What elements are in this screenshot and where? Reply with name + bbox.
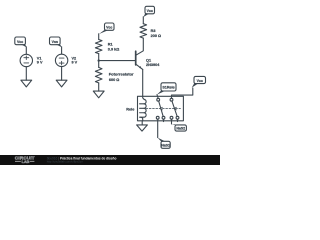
svg-text:600 Ω: 600 Ω bbox=[109, 78, 119, 82]
relay switch 2 bbox=[170, 98, 179, 119]
transistor Q1 2N3904 bbox=[136, 51, 160, 69]
flag NaS2 bbox=[172, 124, 187, 131]
svg-text:Vcc: Vcc bbox=[17, 40, 23, 44]
svg-text:Rele: Rele bbox=[126, 108, 134, 112]
resistor R3 bbox=[140, 24, 161, 38]
svg-text:NaS1: NaS1 bbox=[161, 144, 170, 148]
voltage source V1 bbox=[20, 54, 43, 66]
svg-text:R1: R1 bbox=[108, 43, 113, 47]
relay Rele box bbox=[126, 96, 183, 121]
voltage source V2 bbox=[55, 54, 77, 66]
wire bbox=[98, 34, 100, 40]
svg-text:2N3904: 2N3904 bbox=[146, 63, 160, 67]
flag NaS1 bbox=[158, 138, 171, 149]
svg-text:S1Rele: S1Rele bbox=[162, 86, 174, 90]
wire (base) bbox=[99, 60, 136, 62]
link arrow bbox=[174, 107, 176, 110]
wire bbox=[61, 67, 63, 81]
flag Vcc (node at R1) bbox=[99, 23, 114, 34]
watermark bar bbox=[0, 155, 220, 165]
wire bbox=[142, 17, 144, 24]
svg-text:200 Ω: 200 Ω bbox=[151, 34, 161, 38]
relay mechanical link (dashed) bbox=[146, 108, 180, 110]
flag Vcc (node at R3) bbox=[143, 6, 154, 17]
wire bbox=[157, 119, 159, 138]
wire bbox=[61, 47, 63, 54]
ground bbox=[56, 80, 67, 87]
fotorresistor (photoresistor 600 ohm) bbox=[95, 67, 134, 83]
svg-text:Vcc: Vcc bbox=[106, 26, 112, 30]
svg-text:LAB: LAB bbox=[22, 160, 30, 164]
svg-text:NaS2: NaS2 bbox=[176, 127, 185, 131]
wire bbox=[98, 54, 100, 61]
wire bbox=[25, 47, 27, 55]
wire bbox=[172, 88, 193, 98]
svg-text:9 V: 9 V bbox=[37, 61, 43, 65]
wire bbox=[141, 121, 143, 125]
relay coil bbox=[140, 96, 147, 121]
wire bbox=[98, 61, 100, 68]
wire bbox=[157, 95, 158, 99]
svg-text:R3: R3 bbox=[151, 29, 156, 33]
wire (emitter) bbox=[142, 69, 144, 96]
svg-text:Vcc: Vcc bbox=[197, 79, 203, 83]
link arrow bbox=[160, 107, 162, 110]
flag S1Rele bbox=[157, 83, 176, 95]
svg-text:Vcc: Vcc bbox=[147, 9, 153, 13]
wire (NC stub S1) bbox=[163, 119, 165, 122]
flag Vcc (relay contact) bbox=[192, 76, 206, 87]
resistor R1 bbox=[95, 40, 119, 54]
flag Vcc (node at V1) bbox=[15, 37, 27, 47]
wire bbox=[98, 83, 100, 91]
wire bbox=[171, 119, 173, 124]
wire (NC stub S2) bbox=[177, 119, 179, 122]
wire bbox=[25, 67, 27, 81]
svg-text:Q1: Q1 bbox=[146, 58, 151, 62]
svg-text:Vss: Vss bbox=[52, 40, 58, 44]
svg-text:http://circuitlab.com/c/8pv2cv: http://circuitlab.com/c/8pv2cv bbox=[47, 160, 84, 164]
svg-text:Fotorresistor: Fotorresistor bbox=[109, 72, 134, 77]
ground bbox=[21, 80, 32, 87]
node junction bbox=[98, 59, 100, 61]
ground bbox=[137, 125, 148, 131]
svg-text:3.9 kΩ: 3.9 kΩ bbox=[108, 47, 120, 51]
relay switch 1 bbox=[156, 98, 165, 119]
flag Vss (node at V2) bbox=[50, 37, 62, 47]
svg-text:9 V: 9 V bbox=[72, 61, 78, 65]
ground bbox=[93, 91, 104, 98]
wire (collector) bbox=[136, 38, 144, 55]
